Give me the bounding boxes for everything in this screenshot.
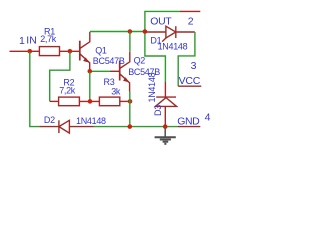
wire green Q1 collector line to D1 node (90, 31, 145, 33)
svg-text:OUT: OUT (150, 15, 172, 27)
resistor R3 (99, 97, 119, 106)
wire R2 left pin red (50, 100, 59, 102)
node junction IN/R1 (28, 49, 33, 54)
node junction Q1 emitter (88, 69, 93, 74)
wire green node down to D3 feed (145, 32, 166, 83)
ground symbol (155, 128, 176, 143)
transistor Q2 (120, 52, 130, 92)
wire green OUT elbow up to pin 2 (145, 11, 180, 31)
svg-text:3k: 3k (111, 87, 121, 97)
svg-text:BC547B: BC547B (93, 56, 125, 66)
node junction R3/Q2 emitter (128, 99, 133, 104)
diode D2 (39, 120, 93, 133)
wire green Q1 emitter down to R3 (89, 72, 91, 101)
wire pin 3 VCC red line (178, 85, 201, 87)
wire green from IN node down to bottom rail (30, 52, 40, 127)
wire R1 to Q1 base (60, 50, 80, 52)
svg-text:7,2k: 7,2k (59, 85, 76, 95)
svg-text:Q2: Q2 (134, 56, 146, 66)
resistor R1 (39, 47, 59, 56)
wire green bottom rail (94, 126, 179, 128)
svg-text:1N4148: 1N4148 (158, 41, 188, 51)
resistor R2 (59, 97, 80, 106)
node junction R1/Q1 base (68, 49, 73, 54)
svg-text:1: 1 (19, 35, 25, 47)
node junction rail/D3/ground (163, 124, 168, 129)
svg-text:4: 4 (205, 111, 211, 123)
svg-text:1N4148: 1N4148 (147, 72, 157, 102)
node junction collector/Q2 (128, 29, 133, 34)
wire pin 2 red line (180, 10, 200, 12)
svg-text:2,7k: 2,7k (40, 34, 57, 44)
wire IN pin line from connector pin 1 (10, 50, 40, 52)
wire green Q2 collector feed (129, 32, 131, 52)
wire green D1 cathode down jog to VCC pin (178, 32, 195, 86)
svg-text:D2: D2 (44, 115, 55, 125)
wire green Q2 emitter down to rail (129, 92, 131, 127)
node junction rail/Q2 emitter (128, 124, 133, 129)
wire R3 right pin red (120, 100, 130, 102)
transistor Q1 (80, 32, 90, 72)
wire pin 4 GND red line (178, 126, 200, 128)
wire R2 to R3 red (79, 100, 99, 102)
wire Q2 base pin red (110, 70, 120, 72)
wire green from R1 node down and left to R2 (50, 52, 70, 101)
svg-text:VCC: VCC (179, 75, 201, 87)
svg-text:GND: GND (177, 116, 200, 128)
wire green Q1 emitter to Q2 base (90, 70, 110, 72)
svg-text:Q1: Q1 (95, 46, 107, 56)
diode D3 (155, 82, 176, 127)
svg-text:2: 2 (188, 15, 194, 27)
node junction collector/D1/OUT (143, 29, 148, 34)
svg-text:3: 3 (191, 60, 197, 72)
node junction R2/R3 (88, 99, 93, 104)
diode D1 (145, 26, 195, 41)
svg-text:1N4148: 1N4148 (76, 116, 106, 126)
svg-text:D3: D3 (153, 105, 163, 116)
svg-text:IN: IN (26, 35, 37, 47)
